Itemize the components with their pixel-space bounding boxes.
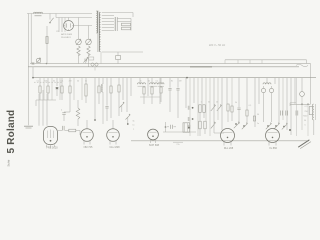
wire grid lead V1 b <box>42 90 44 126</box>
resistor R33 <box>116 56 121 60</box>
wire tap 7 <box>102 30 114 32</box>
speaker lead squiggle <box>296 64 308 67</box>
node D <box>165 122 167 132</box>
wire <box>46 26 48 64</box>
wire tick <box>237 60 239 64</box>
svg-text:1n: 1n <box>257 123 259 125</box>
svg-text:VL 866: VL 866 <box>269 147 277 150</box>
svg-text:5k: 5k <box>132 121 134 123</box>
wire tuning gang link <box>34 81 63 83</box>
wire grid lead V1 c <box>46 94 48 126</box>
wire mains lead <box>30 14 32 64</box>
label V1 <box>46 147 58 150</box>
resistor R32 <box>309 107 313 115</box>
value labels mid <box>132 121 135 131</box>
wire <box>69 93 71 100</box>
wire grid lead V1 a <box>38 94 40 126</box>
wire <box>159 78 161 104</box>
trimmer C20 <box>274 122 280 129</box>
wire <box>126 78 128 112</box>
resistor R20 <box>203 105 205 113</box>
resistor R30 <box>246 78 248 123</box>
wire <box>221 78 223 130</box>
capacitor C27 <box>176 78 179 118</box>
tube V4 <box>148 129 159 143</box>
node K <box>289 129 291 131</box>
capacitor C28 <box>281 111 283 116</box>
capacitor C12 <box>188 106 193 110</box>
node F <box>243 125 245 127</box>
resistor R6 <box>39 86 41 93</box>
resistor R29 <box>231 78 233 121</box>
plug X1 <box>32 62 34 64</box>
capacitor C17 <box>261 86 265 122</box>
label sheet id <box>6 159 10 166</box>
wire <box>201 78 203 105</box>
resistor R13 <box>98 78 100 104</box>
wire <box>59 78 61 100</box>
wire <box>307 104 309 136</box>
node I <box>301 103 303 105</box>
wire <box>296 78 298 136</box>
capacitor C11 <box>167 125 176 129</box>
resistor R5 <box>122 27 131 30</box>
wire <box>132 13 134 18</box>
resistor R31 <box>253 114 260 121</box>
resistor R2 <box>77 46 80 56</box>
coil L5 <box>263 78 275 85</box>
tube V5 <box>221 129 235 146</box>
capacitor C14 <box>237 78 240 124</box>
svg-text:5 Roland: 5 Roland <box>6 110 17 154</box>
svg-text:50k: 50k <box>44 81 47 83</box>
svg-text:CLL M28: CLL M28 <box>109 146 120 149</box>
wire <box>306 60 308 64</box>
wire <box>69 78 71 86</box>
wire <box>254 78 256 127</box>
wire grid bus <box>33 77 316 79</box>
wire <box>290 103 296 106</box>
wire <box>197 78 199 136</box>
wire <box>64 100 70 112</box>
wire <box>81 78 83 100</box>
wire <box>213 78 215 133</box>
node C <box>94 119 96 121</box>
resistor R14 <box>110 78 112 118</box>
wire tap 5 <box>102 24 114 26</box>
trimmer C22 <box>300 78 305 130</box>
wire anode V2 <box>86 120 88 129</box>
coil L4 <box>150 78 158 87</box>
label selector <box>56 31 59 33</box>
wire <box>147 78 149 96</box>
wire <box>313 120 315 135</box>
resistor R12 zigzag <box>76 100 80 126</box>
resistor R19 <box>199 105 201 113</box>
wire <box>286 78 288 130</box>
label V3 <box>109 146 120 149</box>
value labels out <box>303 106 309 127</box>
rectifier tube V7 <box>63 18 74 31</box>
wire <box>61 78 63 86</box>
trimmer C3 <box>83 57 88 64</box>
wire <box>282 78 284 120</box>
wire bus B+ lower <box>28 66 299 68</box>
label V5 <box>224 147 234 150</box>
wire <box>117 21 131 23</box>
transformer TR1 core <box>98 11 99 53</box>
capacitor C18 <box>269 86 273 122</box>
wire <box>36 99 56 101</box>
wire <box>122 78 124 100</box>
wire <box>209 78 211 136</box>
resistor R16 <box>143 86 145 104</box>
coil L6 <box>158 78 164 87</box>
trimmer C25 <box>211 122 216 129</box>
resistor R28 <box>227 78 229 122</box>
wire screen bus <box>225 59 307 61</box>
label V6 <box>269 147 277 150</box>
coil L2 <box>102 78 103 124</box>
svg-text:SCH 608: SCH 608 <box>149 144 160 147</box>
wire heater bus <box>131 140 309 142</box>
node L <box>186 77 188 79</box>
wire <box>39 93 41 100</box>
wire <box>140 96 160 98</box>
capacitor C6 <box>62 113 65 121</box>
speaker SP <box>298 140 311 149</box>
wire heater tap <box>55 14 57 18</box>
wire <box>258 78 260 104</box>
wire tap 3 <box>102 18 114 20</box>
wire <box>278 78 280 124</box>
wire <box>94 78 96 120</box>
wire <box>173 141 183 143</box>
choke L1 <box>34 12 43 16</box>
wire <box>47 78 49 86</box>
wire <box>100 52 102 64</box>
wire <box>185 78 187 108</box>
svg-text:27n: 27n <box>176 144 179 146</box>
trimmer C24 <box>217 104 222 111</box>
svg-text:3k: 3k <box>53 81 55 83</box>
node G <box>267 125 269 127</box>
svg-text:5k: 5k <box>235 102 237 104</box>
wire heater winding lead <box>102 51 143 53</box>
resistor R8 <box>61 86 63 93</box>
value labels block <box>200 102 218 104</box>
wire <box>88 54 90 67</box>
trimmer C16 <box>242 122 248 129</box>
wire anode V3 <box>112 120 114 129</box>
capacitor C4 <box>55 78 58 96</box>
wire <box>117 60 119 64</box>
wire <box>32 67 34 78</box>
svg-text:2k: 2k <box>216 102 218 104</box>
trimmer C31 <box>282 123 288 130</box>
node M <box>283 126 285 128</box>
wire <box>290 78 292 135</box>
resistor R9 <box>69 86 71 93</box>
value labels left <box>37 81 88 83</box>
potentiometer P1 <box>76 18 82 46</box>
resistor R26 <box>204 121 206 129</box>
switch S1 <box>49 14 53 24</box>
resistor R3 <box>87 46 90 56</box>
resistor R1 <box>46 37 48 44</box>
label V4 <box>149 144 160 147</box>
capacitor C29 <box>286 111 288 116</box>
wire <box>78 54 80 64</box>
wire <box>51 78 53 100</box>
label AZ 11 <box>61 33 72 39</box>
resistor R17 <box>151 86 153 104</box>
resistor R25 <box>199 121 201 129</box>
trimmer C23 <box>211 104 216 111</box>
wire <box>290 103 311 105</box>
wire mains top <box>27 13 92 15</box>
wire <box>73 78 75 100</box>
resistor R4 <box>122 23 131 26</box>
resistor R7 <box>47 86 49 93</box>
wire bus right drop <box>310 64 312 105</box>
transformer TR3 <box>313 104 316 120</box>
capacitor C2 electrolytic <box>115 17 117 31</box>
resistor R10 <box>85 78 87 103</box>
wire <box>130 78 132 96</box>
svg-text:NM 725: NM 725 <box>84 146 93 149</box>
wire <box>163 131 196 133</box>
potentiometer P2 <box>86 26 92 46</box>
wire rectifier anode <box>74 25 93 27</box>
capacitor C26 <box>188 125 190 129</box>
socket J1 <box>89 57 94 60</box>
capacitor C21 <box>294 78 296 105</box>
wire <box>39 78 41 86</box>
svg-text:1M: 1M <box>179 81 182 83</box>
wire <box>200 112 205 136</box>
svg-text:AZ 11 1003: AZ 11 1003 <box>61 33 72 36</box>
wire tick <box>224 60 226 64</box>
svg-text:220 V~ 50 Hz: 220 V~ 50 Hz <box>209 43 226 47</box>
value labels if <box>140 81 181 83</box>
transformer TR1 primary <box>96 11 97 33</box>
wire tap 6 <box>102 27 114 29</box>
wire <box>214 132 224 134</box>
node B <box>32 77 34 79</box>
wire tap 4 <box>102 21 114 23</box>
wire <box>43 78 45 100</box>
wire tap 2 <box>102 15 114 17</box>
label V2 <box>84 146 93 149</box>
label 5 Roland <box>6 110 17 154</box>
node E <box>235 123 237 125</box>
svg-text:125: 125 <box>56 31 59 33</box>
wire antenna lead <box>28 14 30 126</box>
label value <box>176 144 179 146</box>
trimmer C19 <box>266 122 272 129</box>
resistor R34 <box>160 86 162 102</box>
wire tap 1 <box>102 12 133 14</box>
trimmer C8 <box>120 102 125 112</box>
wire tick <box>261 60 263 64</box>
capacitor C7 <box>105 78 108 121</box>
capacitor C10 <box>168 78 171 112</box>
svg-text:8n: 8n <box>171 81 173 83</box>
voltage selector taps <box>59 18 65 33</box>
node J <box>307 103 309 105</box>
coil L3 <box>138 78 146 87</box>
wire <box>117 52 119 56</box>
tube V3 <box>107 129 120 145</box>
node H <box>275 125 277 127</box>
value label <box>235 102 259 125</box>
capacitor C1 <box>24 126 33 128</box>
wire <box>217 78 219 120</box>
wire <box>193 78 195 103</box>
trimmer C9 <box>126 114 131 125</box>
value label h <box>61 110 63 112</box>
wire <box>35 100 37 106</box>
transformer TR2 <box>183 123 190 132</box>
wire <box>189 78 191 136</box>
wire <box>205 78 207 122</box>
trimmer C15 <box>234 121 240 128</box>
socket J2 <box>91 63 98 66</box>
wire <box>130 19 133 31</box>
label mains rating <box>209 43 226 47</box>
resistor R15 <box>118 78 120 116</box>
resistor R11 <box>69 129 80 135</box>
svg-text:FRE 5020: FRE 5020 <box>46 147 58 150</box>
wire <box>61 93 63 100</box>
wire <box>94 67 96 71</box>
svg-text:DLL 208: DLL 208 <box>224 147 234 150</box>
tube V6 <box>266 129 280 146</box>
svg-text:110-240 V: 110-240 V <box>61 37 71 39</box>
wire tick <box>249 60 251 64</box>
potentiometer P3 <box>36 57 41 63</box>
svg-text:1n: 1n <box>132 125 134 127</box>
node A <box>46 63 48 65</box>
wire bus dark segment <box>190 66 212 68</box>
wire rectifier top <box>56 17 92 19</box>
tube V2 <box>81 129 94 145</box>
capacitor C5 <box>58 126 69 131</box>
wire bus B+ upper <box>30 63 311 65</box>
tube V1 <box>44 127 58 148</box>
capacitor C30 <box>296 111 298 116</box>
svg-text:Schb: Schb <box>6 159 10 166</box>
transformer TR1 secondary <box>99 13 100 52</box>
wire <box>117 18 131 20</box>
wire <box>47 93 49 100</box>
capacitor C13 <box>188 117 193 121</box>
